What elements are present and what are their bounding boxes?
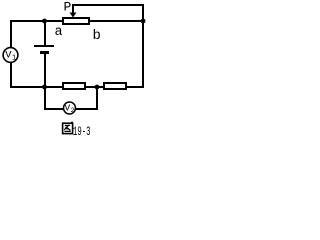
caption: character tu (drawn) xyxy=(63,122,73,133)
wire: right vertical from top-right corner down to bottom-right corner xyxy=(142,4,144,88)
node: junction dot battery top xyxy=(42,19,47,24)
node: junction dot between R1 and R2 xyxy=(95,85,100,90)
wire: terminal b to right vertical xyxy=(90,20,144,22)
wire: V2 branch bottom left segment xyxy=(44,108,64,110)
svg-text:19-3: 19-3 xyxy=(73,124,91,139)
wire: V2 branch right vertical up to junction xyxy=(96,87,98,110)
battery cell: long positive plate xyxy=(34,45,54,47)
battery cell: short thick negative plate xyxy=(40,51,49,54)
wire: battery bottom lead xyxy=(44,54,46,87)
wire: between R1 and R2 xyxy=(86,86,103,88)
potentiometer P body (rheostat) xyxy=(62,17,90,25)
resistor R1 (bottom left) xyxy=(62,82,86,90)
node: junction dot below battery xyxy=(42,85,47,90)
resistor R2 (bottom right) xyxy=(103,82,127,90)
voltmeter V1 xyxy=(3,48,18,63)
svg-text:1: 1 xyxy=(12,55,16,63)
svg-text:V: V xyxy=(65,103,71,114)
wire: R2 to bottom-right corner xyxy=(127,86,144,88)
wire: battery top lead xyxy=(44,20,46,45)
svg-text:2: 2 xyxy=(71,107,75,114)
wire: terminal a to left side xyxy=(10,20,62,22)
wire: top wire from slider P to top-right corner xyxy=(72,4,144,6)
svg-text:b: b xyxy=(93,28,101,44)
wire: slider stem of potentiometer xyxy=(72,4,74,13)
node: junction dot at right vertical / wire b xyxy=(141,19,146,24)
svg-text:P: P xyxy=(64,0,72,15)
slider arrowhead of potentiometer P xyxy=(70,13,77,18)
wire: left vertical through voltmeter V1 xyxy=(10,20,12,88)
wire: V2 branch bottom right segment xyxy=(76,108,97,110)
svg-text:a: a xyxy=(55,25,63,40)
wire: bottom-left horizontal xyxy=(10,86,62,88)
wire: V2 branch left vertical xyxy=(44,87,46,110)
voltmeter V2 xyxy=(64,102,76,114)
